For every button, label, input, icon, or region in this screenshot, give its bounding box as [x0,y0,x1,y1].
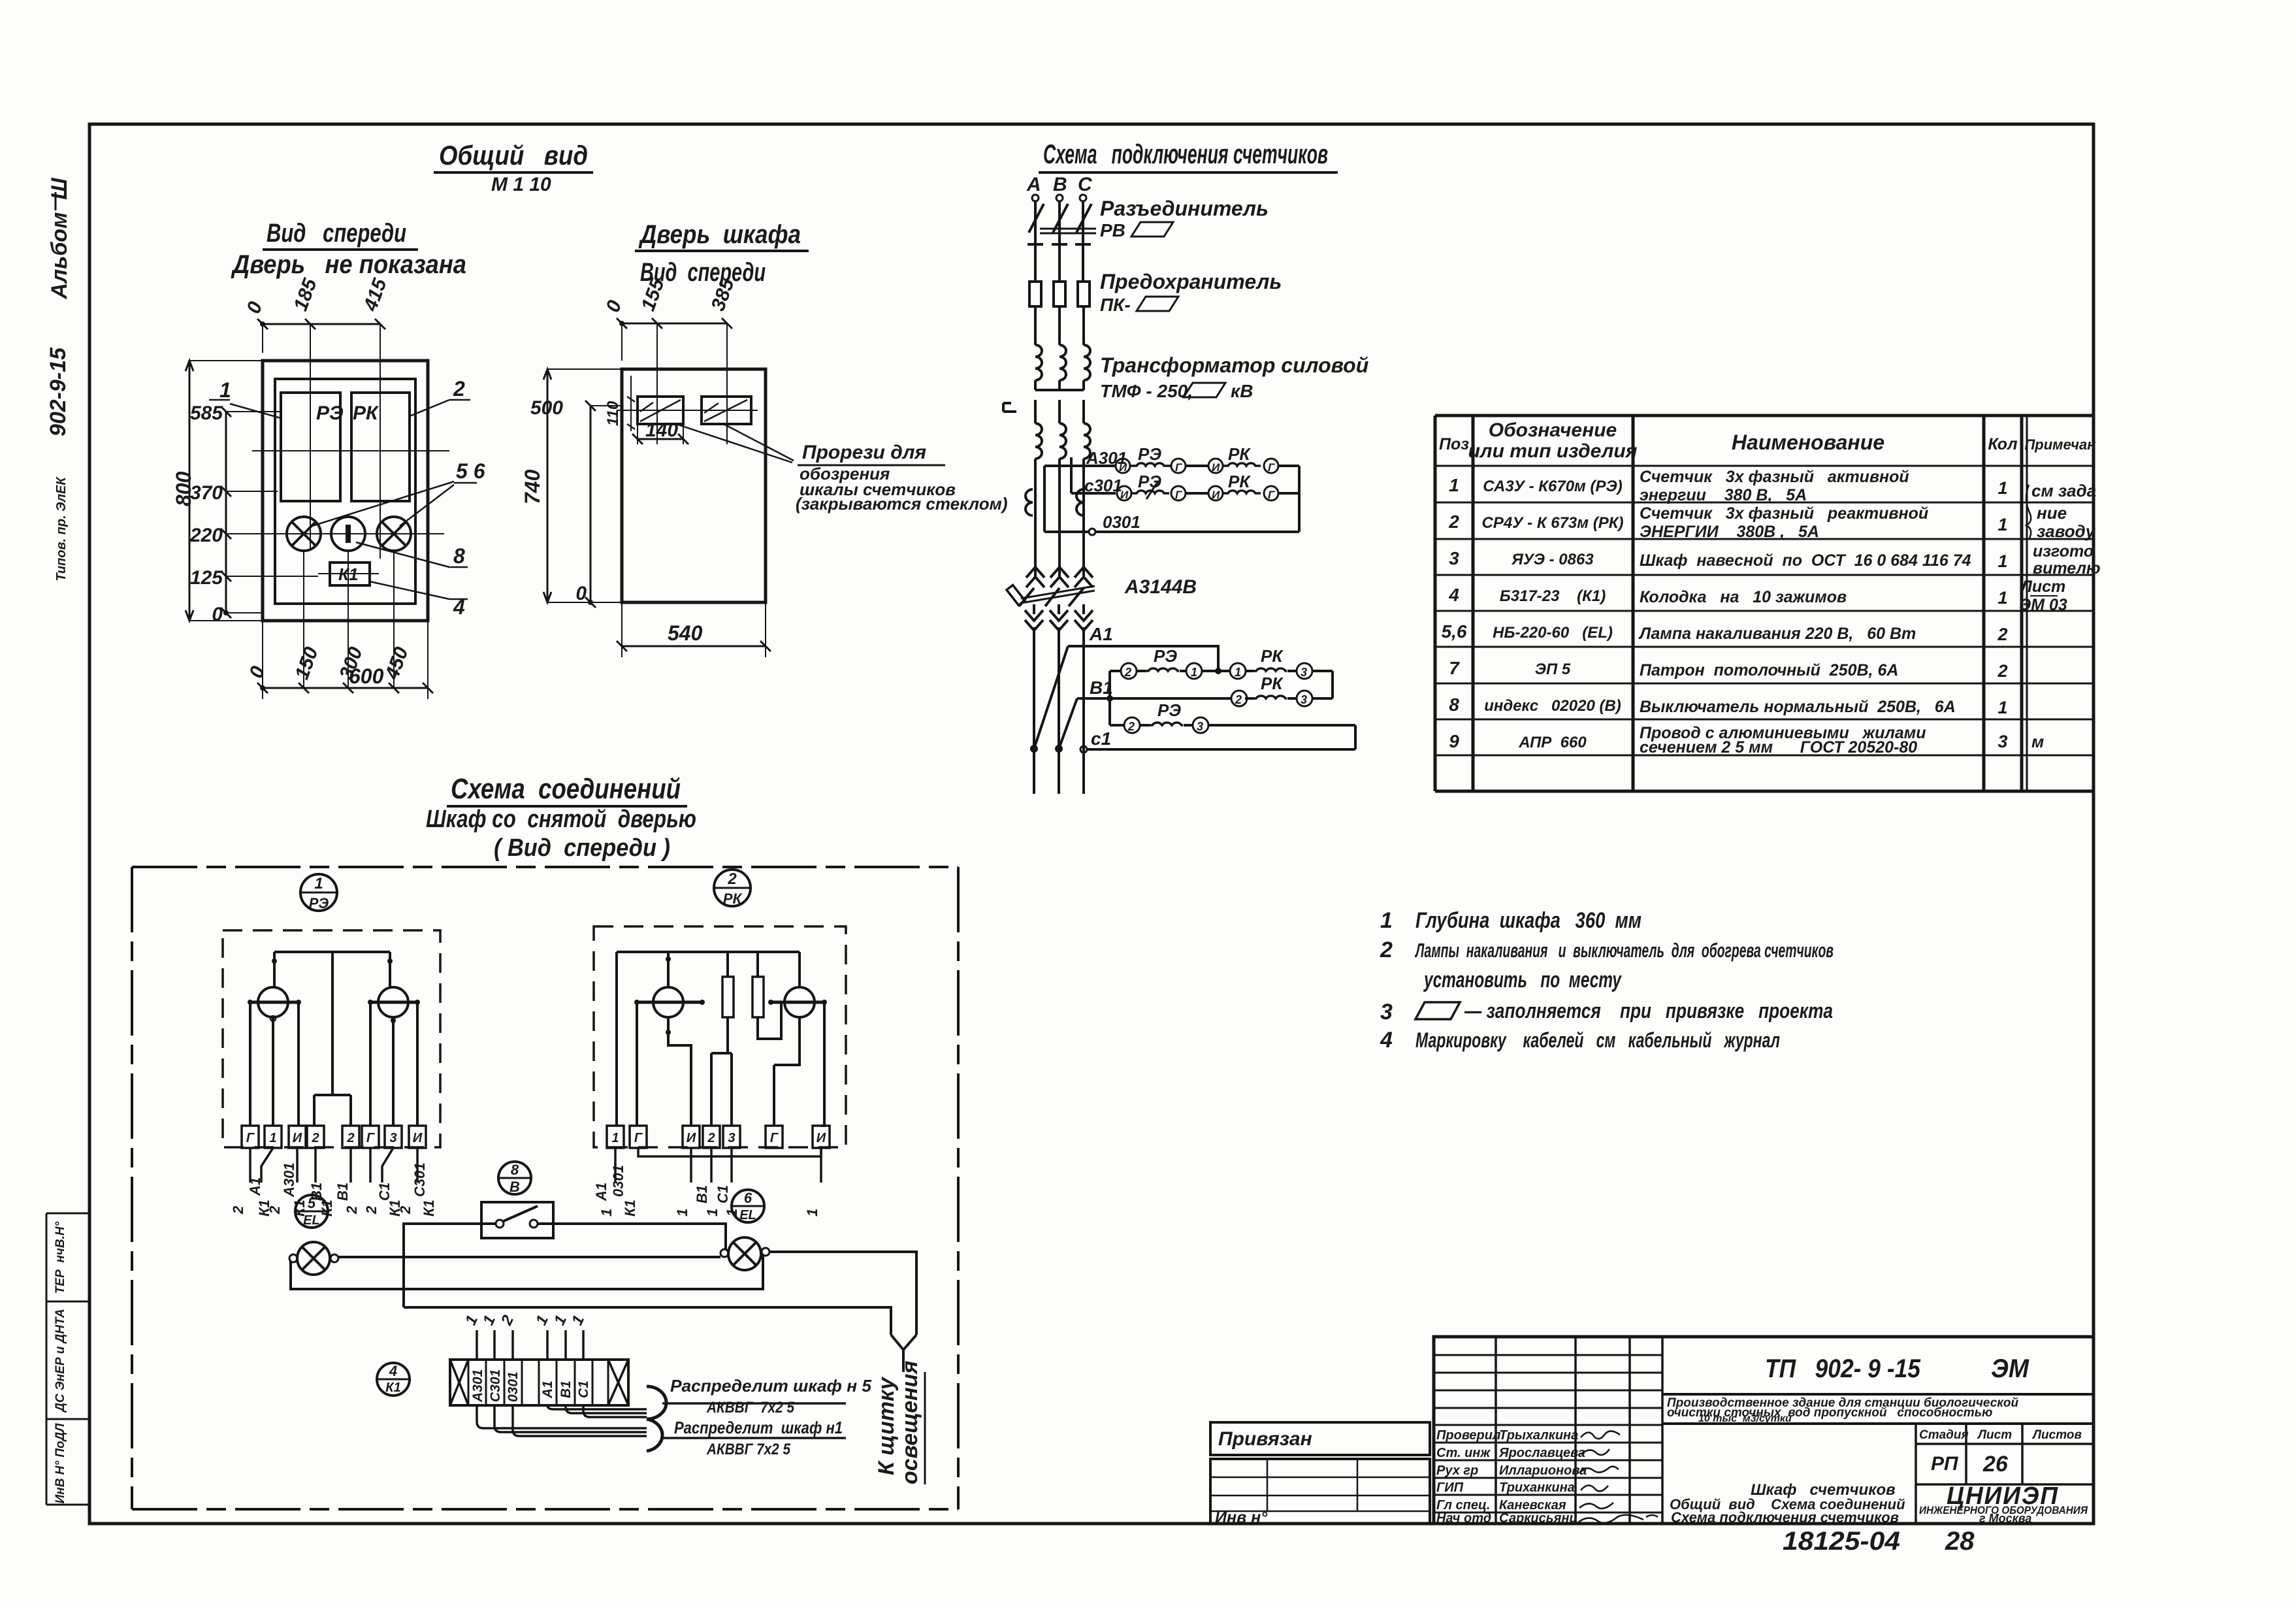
svg-text:А301: А301 [281,1162,297,1198]
svg-text:Распределит шкаф н1: Распределит шкаф н1 [674,1418,843,1437]
CT circle И [1116,459,1130,473]
РК terminal boxes row [607,1126,830,1148]
cabinet body outer [263,361,428,621]
svg-text:Шкаф навесной по ОСТ 16 0: Шкаф навесной по ОСТ 16 0 684 116 74 [1640,551,1971,570]
svg-text:1: 1 [1997,515,2007,534]
svg-text:3: 3 [389,1131,396,1145]
fuse B [1054,282,1065,306]
secondary coil A [1035,400,1042,459]
svg-text:Схема соединений: Схема соединений [451,773,681,805]
svg-text:индекс 02020 (В): индекс 02020 (В) [1484,697,1621,715]
slot window right [702,397,751,424]
svg-text:7: 7 [1449,658,1460,678]
right bus metering [1298,466,1301,532]
svg-text:2: 2 [363,1205,380,1215]
svg-text:2: 2 [1235,693,1242,706]
svg-text:2: 2 [344,1205,360,1215]
secondary coil C [1084,400,1090,459]
svg-text:Шкаф со снятой дверью: Шкаф со снятой дверью [426,806,696,833]
terminal K1 rect [330,563,370,585]
svg-text:9: 9 [1449,731,1459,751]
leaders from slots to note [674,423,794,463]
centerline vertical 415 [380,324,381,559]
svg-text:установить по месту: установить по месту [1423,968,1623,992]
РЭ cable labels rotated [230,1162,437,1217]
X cells [450,1360,628,1405]
svg-text:1: 1 [314,875,323,892]
overall door height dim 740 [547,369,549,602]
badge 2/РК [714,870,751,906]
svg-text:К1: К1 [622,1200,638,1217]
svg-text:2: 2 [311,1131,319,1145]
svg-text:1: 1 [598,1209,615,1217]
wires below strip to braces [477,1405,647,1428]
svg-text:3: 3 [1449,548,1459,568]
svg-text:Рух гр: Рух гр [1436,1463,1478,1478]
svg-text:Г: Г [1175,489,1183,501]
svg-text:РЭ: РЭ [1157,700,1181,720]
svg-text:И: И [1212,489,1220,501]
svg-text:В1: В1 [694,1185,710,1203]
svg-text:Типов. пр. ЭлЕК: Типов. пр. ЭлЕК [54,476,69,581]
svg-text:Стадия: Стадия [1919,1428,1969,1442]
underline [263,248,418,251]
svg-text:3: 3 [728,1131,735,1145]
РК below-box link [638,1148,821,1156]
meter РЭ dashed box [223,930,440,1147]
dim 110 vertical near left slot [630,376,632,431]
wire lamp5 to lamp6 [338,1256,720,1258]
РК voltage coil 2 [784,987,815,1017]
svg-text:заводу: заводу [2037,521,2096,541]
svg-text:5 6: 5 6 [456,459,485,483]
slot window left [638,397,683,424]
svg-text:6: 6 [744,1190,752,1206]
svg-text:РК: РК [1228,472,1251,491]
svg-text:110: 110 [604,400,622,426]
svg-text:Г: Г [634,1131,643,1145]
svg-text:Предохранитель: Предохранитель [1100,270,1282,293]
svg-text:3: 3 [1301,666,1307,679]
svg-text:кВ: кВ [1231,381,1253,401]
CT circle Г [1264,459,1278,473]
svg-text:4: 4 [453,595,465,619]
svg-text:энергии 380 В, 5А: энергии 380 В, 5А [1640,486,1807,504]
svg-text:С1: С1 [376,1183,393,1201]
svg-text:600: 600 [349,664,384,688]
Привязан box [1210,1422,1430,1455]
svg-text:28: 28 [1945,1527,1975,1556]
fuse A [1029,282,1041,306]
svg-text:Общий вид: Общий вид [439,140,588,171]
row1 РЭ+РК [1110,670,1333,672]
svg-text:8: 8 [511,1162,519,1178]
lamp 5 circle [287,517,321,551]
svg-text:Дверь шкафа: Дверь шкафа [638,220,801,249]
bottom dim 540 [622,646,766,647]
meter window РЭ [281,393,340,501]
svg-text:А1: А1 [540,1381,555,1399]
fuse C [1078,282,1090,306]
junction dots [1030,745,1038,753]
РК link resistor bottom [711,1053,728,1126]
svg-text:Лампы накаливания и выключ: Лампы накаливания и выключатель для обог… [1415,939,1834,962]
chevrons down [1025,610,1043,630]
breaker blades [1019,588,1084,606]
stubs above strip [477,1330,583,1360]
svg-text:1: 1 [1997,698,2007,717]
left dim 500 [590,406,592,602]
svg-text:с1: с1 [1091,728,1111,749]
svg-text:Инв н°: Инв н° [1215,1509,1268,1527]
svg-text:Вид спереди: Вид спереди [267,219,406,248]
svg-text:Лампа накаливания 220 В, 60: Лампа накаливания 220 В, 60 Вт [1638,625,1916,643]
svg-text:А: А [1026,174,1041,195]
brace lower [647,1419,662,1451]
svg-text:ГИП: ГИП [1436,1480,1464,1495]
leader line upper [662,1402,846,1405]
lamp 5 [297,1242,330,1275]
РК drop to coil1 [667,952,670,988]
CT circle Г [1171,459,1186,473]
svg-text:И: И [817,1131,826,1145]
svg-text:1: 1 [611,1131,619,1145]
stage grid [1916,1424,2022,1524]
svg-text:(закрываются стеклом): (закрываются стеклом) [796,494,1008,514]
svg-text:Глубина шкафа 360 мм: Глубина шкафа 360 мм [1415,908,1641,933]
svg-text:В: В [1053,174,1067,195]
svg-text:Нач отд: Нач отд [1436,1511,1491,1526]
svg-text:Счетчик 3х фазный реактивн: Счетчик 3х фазный реактивной [1640,504,1928,523]
svg-text:см зада: см зада [2031,481,2096,500]
svg-text:СР4У - К 673м (РК): СР4У - К 673м (РК) [1482,514,1624,532]
svg-text:585: 585 [190,402,223,424]
svg-text:18125-04: 18125-04 [1783,1527,1900,1556]
meter РК dashed box [594,926,846,1147]
parts table grid [1435,416,2094,791]
underline of Общий вид [434,171,593,174]
parallelogram blank [1137,297,1178,311]
svg-text:0: 0 [575,583,587,604]
svg-text:Маркировку кабелей см к: Маркировку кабелей см кабельный журнал [1415,1028,1780,1052]
leader 8 [356,542,449,567]
svg-text:1: 1 [1997,588,2007,608]
svg-text:С301: С301 [488,1369,503,1402]
svg-text:РП: РП [1931,1453,1959,1475]
leader 2 [410,400,449,416]
wire lamp6 right to funnel [769,1252,916,1335]
svg-text:ЭНЕРГИИ 380В , 5А: ЭНЕРГИИ 380В , 5А [1640,523,1819,541]
svg-text:2: 2 [1997,625,2007,644]
svg-text:1: 1 [269,1131,276,1145]
badge 1/РЭ [300,874,337,911]
svg-text:Трансформатор силовой: Трансформатор силовой [1100,353,1368,377]
wire switch left [404,1224,496,1307]
svg-text:Счетчик 3х фазный активной: Счетчик 3х фазный активной [1640,468,1909,486]
lamp 6 [728,1237,761,1270]
svg-text:Схема подключения счетчиков: Схема подключения счетчиков [1043,139,1328,169]
signature squiggles [1578,1431,1658,1522]
svg-text:Б317-23 (К1): Б317-23 (К1) [1500,587,1606,605]
svg-text:С1: С1 [576,1381,591,1398]
wire switch right to lamp6 [538,1224,726,1249]
svg-text:902-9-15: 902-9-15 [46,347,71,436]
svg-text:НБ-220-60 (EL): НБ-220-60 (EL) [1493,624,1613,642]
svg-text:10 тыс м3/сутки: 10 тыс м3/сутки [1698,1413,1792,1424]
svg-text:И: И [413,1131,423,1145]
svg-text:2: 2 [1124,666,1131,679]
svg-text:1: 1 [674,1209,690,1217]
svg-text:Кол: Кол [1988,435,2018,453]
switch 8 circle [331,517,365,551]
svg-text:АПР 660: АПР 660 [1518,734,1587,751]
svg-text:1: 1 [704,1209,720,1217]
svg-text:4: 4 [389,1363,397,1379]
svg-text:РК: РК [353,402,380,424]
svg-text:1: 1 [1191,666,1197,679]
svg-text:3: 3 [1301,693,1307,706]
РК cable labels rotated [593,1165,820,1217]
svg-text:2: 2 [397,1205,413,1215]
svg-text:РЭ: РЭ [309,895,329,911]
РК coil1 bottom zigzag [668,1017,691,1126]
svg-text:1: 1 [1380,908,1393,933]
left bus of metering rows [1043,466,1046,532]
bottom dim line [263,687,428,689]
svg-text:Листов: Листов [2031,1428,2082,1442]
svg-text:А1: А1 [247,1177,263,1196]
svg-text:Альбом Ш: Альбом Ш [47,178,72,300]
svg-text:1: 1 [1235,666,1241,679]
svg-text:РК: РК [1228,444,1251,464]
svg-text:Триханкина: Триханкина [1499,1480,1575,1495]
svg-text:0301: 0301 [610,1165,626,1197]
svg-text:800: 800 [172,471,195,506]
svg-text:2: 2 [453,377,465,400]
signature rows [1434,1425,1662,1512]
svg-text:Проверил: Проверил [1436,1428,1501,1443]
right bus rows [1331,671,1334,698]
svg-text:изгото: изгото [2033,542,2094,561]
leader 4 [370,581,449,599]
row C301 wire [1071,492,1299,495]
svg-text:Г: Г [1175,461,1183,474]
svg-text:Каневская: Каневская [1499,1498,1566,1512]
vertical centerline through switch down [348,551,349,688]
svg-text:ТП 902- 9 -15: ТП 902- 9 -15 [1765,1354,1921,1383]
badge 5/EL [295,1195,328,1228]
svg-text:2: 2 [727,870,737,888]
row A301 wire [1044,465,1299,467]
signature texts [1436,1428,1587,1526]
centerline horizontal through lamps [255,533,444,534]
lower small grid [1210,1459,1430,1524]
svg-text:— заполняется при привязк: — заполняется при привязке проекта [1464,999,1833,1022]
svg-text:0301: 0301 [1103,512,1140,532]
svg-text:Схема подключения счетчиков: Схема подключения счетчиков [1671,1509,1899,1526]
РЭ wires below terminals [250,1148,417,1183]
chevrons up on wires [1026,567,1044,587]
leader 5 6 [312,482,454,526]
РК voltage coil 1 [653,987,683,1017]
svg-text:РЭ: РЭ [1138,444,1161,464]
svg-text:3: 3 [1380,1000,1393,1024]
РЭ top wire [274,951,390,953]
svg-text:АКВВГ 7х2 5: АКВВГ 7х2 5 [706,1399,794,1416]
РЭ middle link [314,952,351,1126]
svg-text:3: 3 [1197,720,1203,733]
svg-text:Лист: Лист [2020,578,2066,596]
leader 1 [230,404,281,418]
РЭ voltage coil 2 [378,987,408,1017]
switch box [481,1202,553,1238]
svg-text:2: 2 [267,1205,283,1215]
secondary corner mark [1003,403,1016,412]
slot centerlines [617,410,758,411]
leader line lower [662,1437,846,1439]
row С1 wire [1087,748,1355,751]
svg-text:1: 1 [804,1209,820,1217]
wire А1 row [1068,646,1218,671]
svg-text:2: 2 [1448,512,1459,532]
strip cell labels rotated [470,1369,591,1403]
meter window РК [351,393,410,501]
svg-text:ТМФ - 250,: ТМФ - 250, [1100,381,1193,401]
svg-text:И: И [1119,461,1127,474]
badge 8/В [498,1162,531,1194]
CT circle И [1208,459,1223,473]
svg-text:И: И [687,1131,696,1145]
svg-text:140: 140 [645,419,678,441]
svg-text:5,6: 5,6 [1442,621,1467,642]
svg-text:В1: В1 [1090,678,1113,698]
svg-text:СА3У - К670м (РЭ): СА3У - К670м (РЭ) [1483,478,1622,495]
primary bottom bus [1035,380,1084,390]
tertiary coil right [1076,489,1084,515]
svg-text:3: 3 [1997,732,2007,751]
svg-text:0301: 0301 [506,1371,521,1402]
wires below secondary [1035,459,1084,579]
svg-text:А1: А1 [593,1183,609,1201]
svg-text:Ст. инж: Ст. инж [1436,1446,1491,1460]
svg-text:РЭ: РЭ [1154,646,1177,666]
upper empty rows [1434,1355,1662,1408]
svg-text:сечением 2 5 мм ГОСТ 2052: сечением 2 5 мм ГОСТ 20520-80 [1640,738,1917,757]
svg-text:Патрон потолочный 250В, 6А: Патрон потолочный 250В, 6А [1640,661,1898,679]
svg-text:освещения: освещения [897,1361,922,1484]
svg-text:740: 740 [521,469,544,504]
svg-text:РК: РК [723,891,743,907]
К1 terminal strip [450,1360,628,1405]
РЭ wires to terminals [250,1002,417,1126]
РЭ drops to coils [274,952,390,988]
svg-text:М 1 10: М 1 10 [491,174,551,195]
РК wires to terminals [637,1002,824,1126]
centerline horizontal through windows [252,450,449,451]
РЭ coil1 bar [250,1001,299,1004]
big enclosure box dash-dot [132,867,958,1509]
node B [1056,195,1063,201]
svg-text:ТЕР нчВ.Н°: ТЕР нчВ.Н° [54,1221,67,1294]
svg-text:Дверь не показана: Дверь не показана [231,250,466,279]
wires below breaker [1034,604,1084,614]
РК resistor 2 [752,977,764,1017]
svg-text:8: 8 [453,544,465,568]
svg-text:Г: Г [1268,461,1276,474]
svg-text:26: 26 [1982,1452,2009,1477]
svg-text:1: 1 [1997,478,2007,498]
svg-text:Ярославцева: Ярославцева [1498,1446,1585,1460]
РЭ terminal boxes row [242,1126,426,1148]
svg-text:А301: А301 [470,1369,485,1403]
РЭ coil row1 [1130,463,1171,466]
top dimension line [263,323,380,325]
underline [635,250,809,252]
wires fuse to transformer [1035,306,1084,345]
drawing frame border [89,124,2094,1524]
svg-text:( Вид спереди ): ( Вид спереди ) [494,834,670,862]
bottom bus to funnel [404,1307,891,1335]
РК resistor 1 [722,977,734,1017]
svg-text:И: И [293,1131,302,1145]
svg-text:Прорези для: Прорези для [802,442,926,463]
lamp 6 circle [377,517,411,551]
svg-text:Илларионова: Илларионова [1499,1463,1587,1478]
tap diagonal A [1034,646,1068,749]
transformer primary coil A [1035,345,1042,380]
svg-text:РК: РК [1261,646,1284,666]
svg-text:И: И [1212,461,1220,474]
svg-text:2: 2 [1997,661,2007,681]
tap diagonal B [1059,698,1077,749]
svg-text:EL: EL [303,1213,320,1228]
svg-text:Привязан: Привязан [1218,1428,1312,1450]
svg-text:1: 1 [1449,475,1459,495]
svg-text:1: 1 [219,378,231,402]
РК top wire [617,951,800,953]
svg-text:ЭП 5: ЭП 5 [1535,661,1571,678]
svg-text:В1: В1 [334,1183,351,1201]
svg-text:2: 2 [1127,720,1135,733]
svg-text:Выключатель нормальный 250В,: Выключатель нормальный 250В, 6А [1640,698,1956,716]
svg-text:РК: РК [1261,674,1284,693]
svg-text:Г: Г [770,1131,779,1145]
svg-text:РЭ: РЭ [316,402,344,424]
left dim line (levels) [225,412,227,613]
svg-text:ПК-: ПК- [1100,295,1131,315]
svg-text:4: 4 [1448,585,1459,605]
svg-text:2: 2 [346,1131,354,1145]
secondary coil B [1059,400,1066,459]
left margin rotated text: Альбом III [47,178,72,300]
svg-text:2: 2 [1380,938,1393,962]
node A [1032,195,1039,201]
svg-text:ЯУЭ - 0863: ЯУЭ - 0863 [1511,551,1594,568]
svg-text:С1: С1 [715,1185,731,1203]
funnel merge [891,1335,916,1372]
row3 РЭ [1110,724,1355,727]
РЭ coil2 bar [370,1001,417,1004]
dim 140 under left slot [638,424,683,444]
svg-text:РВ: РВ [1100,220,1125,240]
wire phase C [1082,201,1084,282]
svg-text:РЭ: РЭ [1138,472,1161,491]
svg-text:EL: EL [739,1208,756,1222]
svg-text:Колодка на 10 зажимов: Колодка на 10 зажимов [1640,588,1847,606]
svg-text:125: 125 [190,567,223,589]
svg-text:Примечан: Примечан [2024,436,2095,453]
svg-text:В1: В1 [558,1381,574,1398]
